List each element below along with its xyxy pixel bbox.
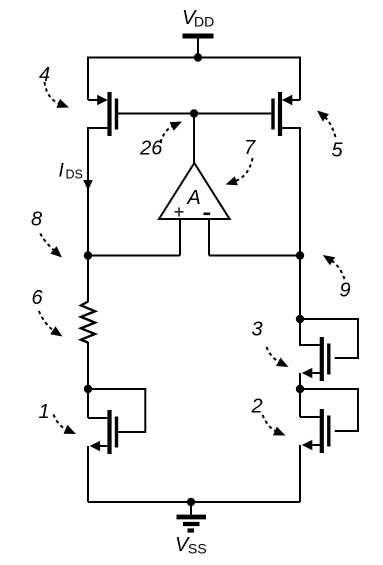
svg-text:3: 3 bbox=[251, 319, 262, 341]
wire op-amp - input lead bbox=[208, 219, 210, 256]
wire resistor to node below bbox=[87, 342, 89, 389]
VSS ground bar 1 bbox=[177, 515, 207, 520]
transistor M3 source arrow bbox=[302, 368, 313, 379]
svg-text:SS: SS bbox=[188, 541, 207, 557]
label 26 arrow bbox=[161, 125, 174, 142]
wire M1 source to VSS rail bbox=[87, 446, 89, 502]
svg-text:9: 9 bbox=[339, 280, 350, 302]
wire M2 source lead bbox=[313, 444, 320, 446]
svg-text:5: 5 bbox=[331, 140, 343, 162]
transistor M5 gate lead bbox=[270, 113, 274, 115]
wire left top (VDD to M4 source) bbox=[87, 57, 89, 101]
wire node 8 to resistor bbox=[87, 255, 89, 303]
wire M4 drain lead bbox=[88, 127, 108, 129]
label 8 arrow bbox=[40, 234, 55, 252]
node 9 junction bbox=[296, 251, 304, 259]
label 7 arrow bbox=[234, 158, 253, 182]
transistor M4 gate lead bbox=[117, 113, 121, 115]
node 26 junction bbox=[190, 109, 198, 117]
svg-text:8: 8 bbox=[31, 209, 42, 231]
wire M2 gate tie loop bbox=[300, 389, 358, 431]
wire node to M2 drain bbox=[299, 388, 301, 417]
wire M1 gate tie loop bbox=[88, 389, 145, 432]
resistor (label 6) bbox=[81, 302, 95, 343]
current arrow IDS bbox=[83, 180, 93, 191]
svg-text:7: 7 bbox=[244, 137, 256, 159]
transistor M5 gate bar bbox=[271, 99, 274, 130]
wire M5 source lead bbox=[292, 99, 300, 101]
wire M4 source lead bbox=[88, 99, 98, 101]
transistor M3 channel bar bbox=[320, 337, 324, 381]
node M2 gate junction bbox=[296, 385, 304, 393]
transistor M2 source arrow bbox=[302, 440, 313, 451]
label 1 arrow bbox=[54, 415, 68, 431]
wire M2 source to VSS rail bbox=[299, 445, 301, 502]
wire node 9 row bbox=[209, 255, 300, 257]
transistor M5 source arrow bbox=[282, 95, 293, 106]
node M3 gate junction bbox=[296, 315, 304, 323]
svg-text:DS: DS bbox=[66, 168, 83, 182]
wire node to M1 drain bbox=[87, 388, 89, 418]
wire M2 drain lead bbox=[300, 416, 320, 418]
wire M3 source to node bbox=[299, 373, 301, 389]
svg-text:26: 26 bbox=[139, 138, 163, 160]
transistor M4 channel bar bbox=[107, 92, 111, 136]
wire M5 drain lead bbox=[282, 127, 301, 129]
VSS ground bar 3 bbox=[188, 528, 195, 532]
transistor M4 source arrow bbox=[97, 95, 108, 106]
transistor M1 source arrow bbox=[90, 441, 101, 452]
wire M3 drain lead bbox=[300, 344, 320, 346]
wire node 26 to op-amp apex bbox=[193, 114, 195, 165]
svg-text:+: + bbox=[174, 201, 185, 222]
label 3 arrow bbox=[267, 347, 281, 363]
wire node 8 row bbox=[88, 255, 180, 257]
wire bottom rail bbox=[88, 501, 300, 503]
wire right branch (M5 drain to M3 drain) bbox=[299, 127, 301, 346]
transistor M5 channel bar bbox=[278, 92, 282, 136]
label 5 arrow bbox=[324, 116, 336, 137]
op-amp A (label 7) bbox=[159, 163, 230, 219]
transistor M2 gate bar bbox=[327, 416, 330, 447]
VDD supply bar bbox=[183, 34, 214, 39]
transistor M4 gate bar bbox=[115, 99, 118, 130]
wire op-amp + input lead bbox=[179, 219, 181, 256]
svg-text:6: 6 bbox=[31, 287, 43, 309]
wire left branch (M4 drain to node 8) bbox=[87, 127, 89, 256]
transistor M3 gate bar bbox=[327, 344, 330, 375]
label 6 arrow bbox=[39, 311, 55, 332]
wire top rail bbox=[88, 57, 300, 59]
transistor M1 channel bar bbox=[107, 410, 111, 454]
op-amp - input mark bbox=[204, 213, 211, 216]
wire M3 source lead bbox=[313, 372, 320, 374]
wire M1 source lead bbox=[100, 445, 107, 447]
label 2 arrow bbox=[263, 415, 278, 432]
transistor M1 gate bar bbox=[115, 417, 118, 448]
node VDD junction bbox=[194, 53, 202, 61]
svg-text:DD: DD bbox=[194, 14, 214, 30]
wire VDD stub bbox=[197, 38, 199, 58]
VSS ground bar 2 bbox=[183, 522, 200, 526]
wire M1 drain lead bbox=[88, 417, 107, 419]
wire right top (VDD to M5 source) bbox=[299, 57, 301, 101]
wire node 26 gate bus bbox=[118, 113, 271, 115]
wire M3 gate tie loop bbox=[300, 319, 358, 358]
svg-text:I: I bbox=[59, 161, 65, 182]
wire VSS ground stub bbox=[190, 502, 192, 515]
svg-text:2: 2 bbox=[250, 396, 262, 418]
node 8 junction bbox=[84, 251, 92, 259]
label 4 arrow bbox=[45, 82, 61, 104]
transistor M2 channel bar bbox=[320, 409, 324, 453]
label 9 arrow bbox=[330, 260, 344, 279]
transistor M1 gate lead bbox=[117, 431, 124, 433]
node M1 gate junction bbox=[84, 385, 92, 393]
svg-text:A: A bbox=[186, 187, 200, 209]
node VSS junction bbox=[187, 498, 195, 506]
svg-text:1: 1 bbox=[38, 401, 49, 423]
